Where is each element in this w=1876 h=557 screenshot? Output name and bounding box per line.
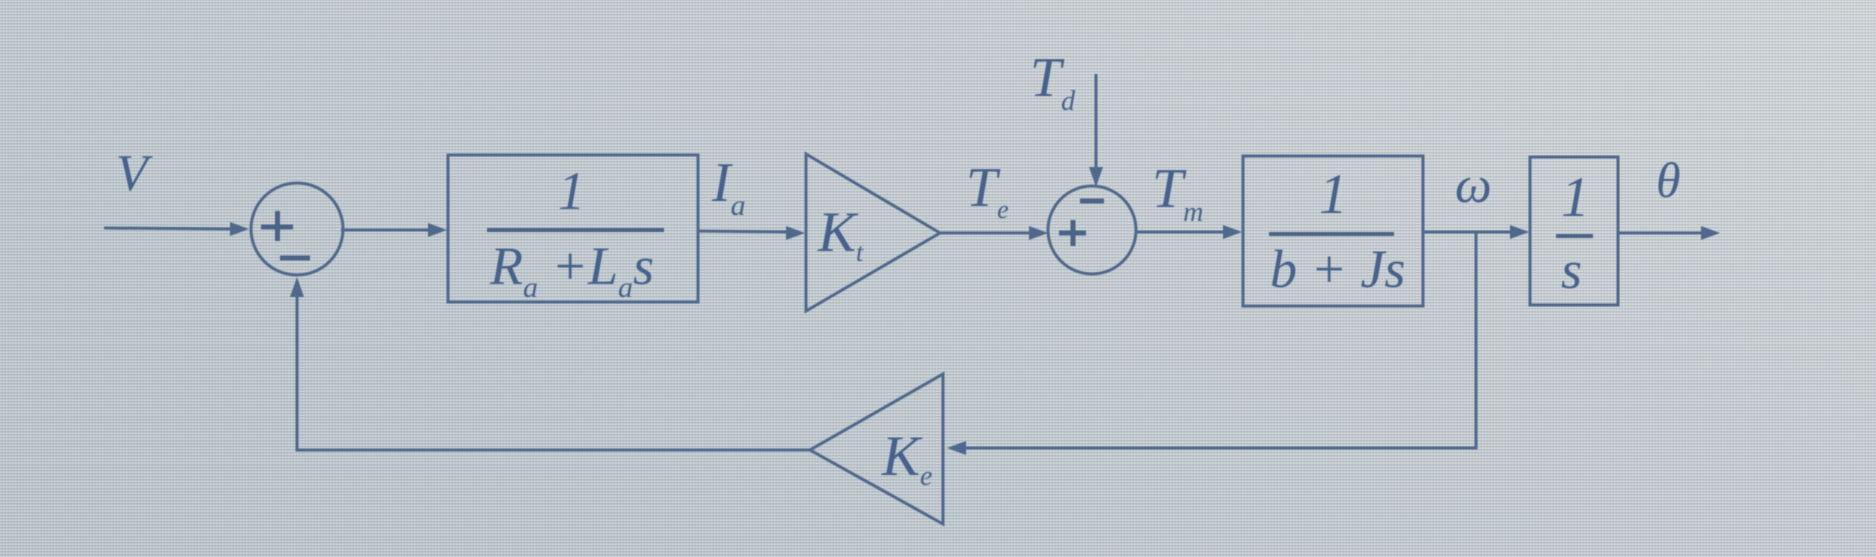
wire feedback left and up to S1 [297,288,810,450]
svg-text:Ra +Las: Ra +Las [489,236,654,304]
arrowhead feedback into S1 bottom [290,277,304,297]
summing junction S2 [1048,186,1136,274]
arrowhead into Kt [786,226,805,240]
svg-text:Tm: Tm [1152,158,1203,228]
wire S1 to block G1 [341,229,434,232]
amplifier Ke [810,374,943,524]
arrowhead into G1 [428,223,447,237]
block G2 1/(b+Js) [1243,156,1423,306]
svg-text:Ke: Ke [881,425,932,492]
wire output theta [1618,232,1708,235]
wire G1 to Kt [698,231,792,232]
svg-text:b + Js: b + Js [1270,239,1405,299]
svg-text:s: s [1561,240,1582,300]
svg-text:1: 1 [1561,166,1590,229]
svg-text:θ: θ [1656,152,1681,208]
wire S2 to block G2 [1136,231,1229,234]
svg-text:Te: Te [966,157,1009,224]
arrowhead output theta [1701,226,1720,240]
wire Kt to S2 [940,232,1035,235]
arrowhead into S2 [1029,226,1048,240]
svg-text:Ia: Ia [711,152,746,222]
wire V input [104,228,236,229]
fraction bar G3 [1556,234,1593,238]
plus sign S1 [261,211,293,241]
minus sign S1 [280,256,310,261]
svg-text:Kt: Kt [817,201,864,267]
svg-text:1: 1 [558,161,585,221]
arrowhead into S1 [230,222,249,236]
svg-text:1: 1 [1319,163,1348,226]
arrowhead into G2 [1223,225,1242,239]
summing junction S1 [251,183,343,275]
block G1 1/(Ra+La s) [448,155,698,302]
amplifier Kt [806,154,940,311]
svg-text:ω: ω [1455,157,1492,214]
arrowhead into G3 [1510,225,1529,239]
arrowhead Td into S2 top [1089,167,1103,187]
svg-text:V: V [116,145,153,202]
minus sign S2 [1080,199,1104,204]
wire Td vertical [1095,74,1098,168]
block G3 1/s [1530,157,1618,305]
svg-text:Td: Td [1030,47,1076,117]
plus sign S2 [1059,220,1086,246]
fraction bar G2 [1269,232,1394,236]
wire G2 to block G3 [1423,231,1519,234]
fraction bar G1 [487,228,664,232]
wire feedback down from omega node [957,232,1476,448]
arrowhead into Ke [947,441,966,455]
